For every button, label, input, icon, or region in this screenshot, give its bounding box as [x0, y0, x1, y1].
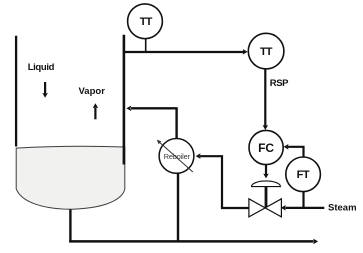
wire FT tap to steam line — [302, 192, 304, 209]
flow transmitter FT — [286, 157, 321, 192]
svg-text:Reboiler: Reboiler — [164, 152, 191, 161]
svg-text:TT: TT — [260, 46, 273, 58]
svg-text:Vapor: Vapor — [79, 86, 106, 97]
column left wall — [15, 36, 17, 147]
wire RSP signal TT2 to FC — [263, 69, 269, 130]
liquid holdup (shaded sump of column) — [16, 146, 125, 209]
svg-text:Liquid: Liquid — [28, 62, 55, 73]
wire steam supply line — [281, 205, 324, 211]
flow controller FC — [249, 130, 283, 164]
temperature controller TT2 — [248, 33, 284, 69]
wire reboiler liquid draw — [177, 173, 179, 242]
wire column bottoms pipe — [69, 210, 71, 243]
valve actuator diaphragm — [252, 181, 281, 187]
wire FC output to valve actuator — [263, 165, 269, 179]
wire reboiler vapor return riser — [175, 108, 177, 139]
svg-text:Steam: Steam — [328, 203, 357, 214]
wire FT to FC signal — [284, 144, 304, 158]
valve stem — [265, 187, 268, 208]
wire TT1 stem — [145, 39, 147, 52]
wire valve outlet to reboiler — [196, 153, 249, 208]
column right wall — [123, 35, 126, 165]
control valve body — [249, 199, 282, 217]
wire vapor return into column — [126, 106, 177, 112]
temperature transmitter TT1 — [128, 4, 163, 39]
svg-text:FT: FT — [297, 169, 310, 181]
svg-text:RSP: RSP — [270, 78, 289, 89]
svg-text:TT: TT — [140, 16, 153, 28]
wire overhead signal to TT2 — [123, 49, 247, 55]
liquid down arrow — [42, 82, 48, 98]
vapor up arrow — [93, 103, 99, 119]
wire bottoms product line — [69, 239, 318, 245]
svg-text:FC: FC — [258, 141, 274, 155]
reboiler — [157, 139, 194, 174]
